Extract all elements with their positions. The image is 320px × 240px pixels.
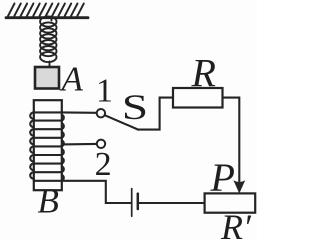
switch contact 1: [97, 109, 105, 117]
svg-text:A: A: [60, 59, 84, 98]
switch contact 2: [97, 140, 105, 148]
wiper arrow P: [233, 180, 245, 193]
svg-text:R: R: [191, 51, 216, 96]
ceiling (fixed support): [6, 4, 88, 18]
wire: battery to rheostat: [139, 202, 205, 204]
svg-text:1: 1: [96, 73, 113, 110]
battery cell positive plate: [131, 189, 133, 217]
electromagnet B windings: [30, 112, 64, 180]
rheostat R' body: [205, 193, 256, 212]
wire: coil to switch contact 1: [62, 111, 97, 114]
svg-text:B: B: [38, 181, 59, 220]
wire: coil to switch contact 2: [62, 143, 97, 146]
electromagnet B core: [34, 100, 62, 190]
wire: coil bottom to battery: [62, 181, 131, 203]
switch S blade: [105, 115, 139, 129]
svg-text:S: S: [122, 87, 148, 127]
spring: [40, 17, 56, 67]
resistor R: [173, 88, 223, 108]
wire: blade to resistor R: [138, 98, 173, 130]
wire: resistor R down to wiper: [223, 98, 240, 182]
armature block A: [35, 67, 59, 89]
battery cell negative plate: [137, 194, 140, 209]
svg-text:R′: R′: [220, 207, 252, 240]
svg-text:2: 2: [95, 146, 112, 183]
